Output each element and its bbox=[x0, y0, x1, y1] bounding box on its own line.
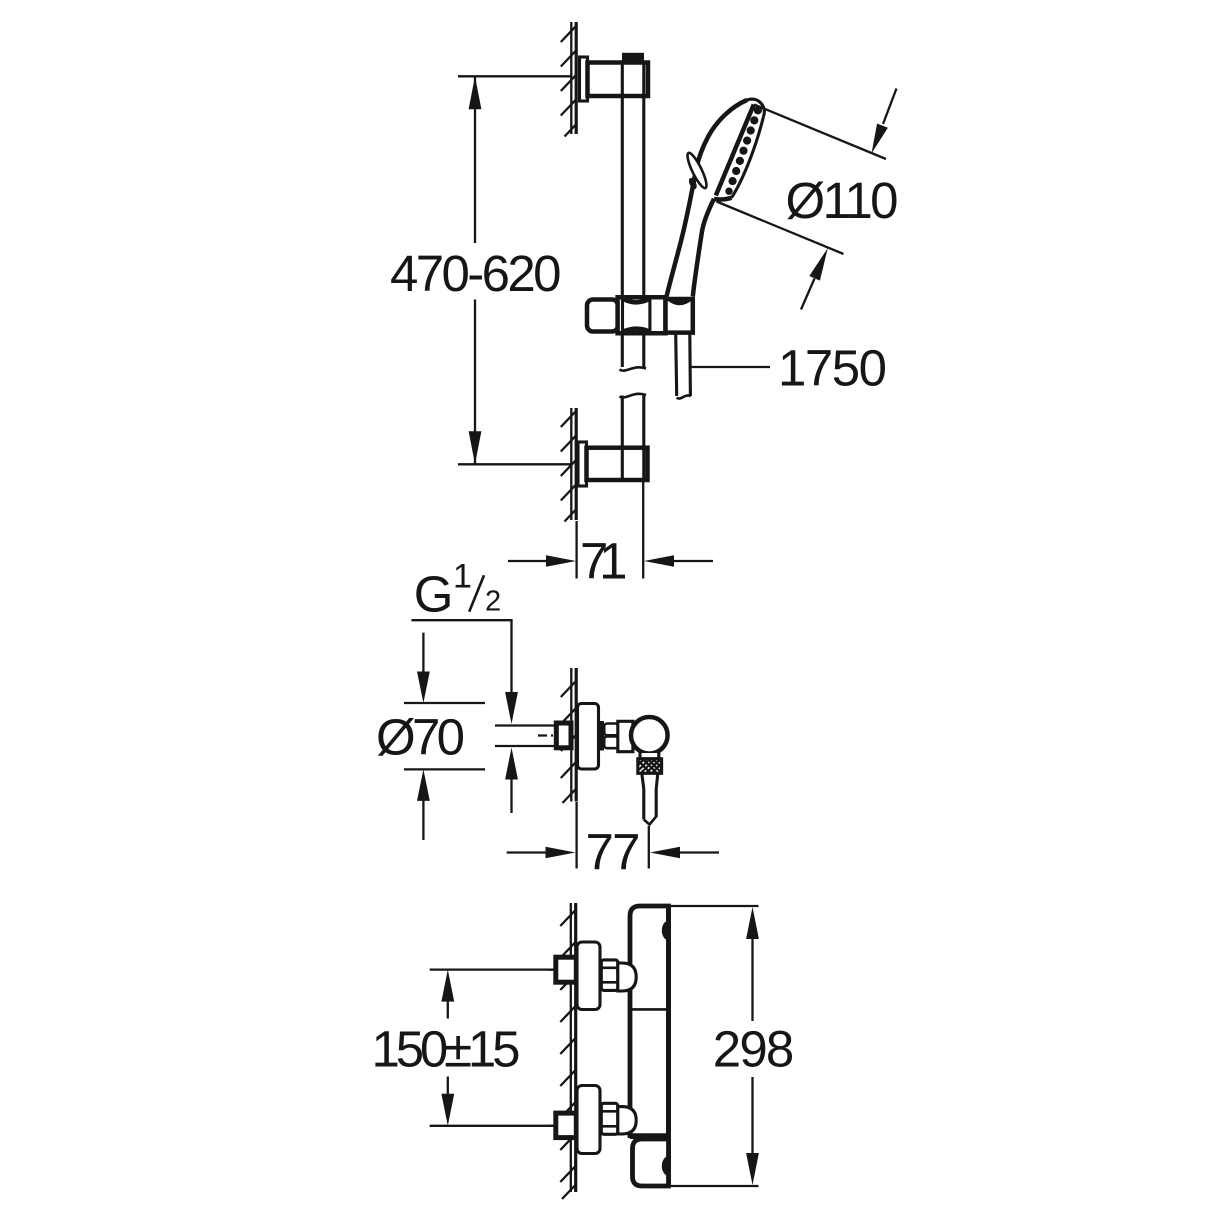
spray nozzles bbox=[725, 106, 762, 195]
bottom inlet: nut behind wall bbox=[556, 1113, 577, 1138]
wall (top) bbox=[571, 22, 576, 134]
bottom cap bbox=[633, 1139, 669, 1186]
svg-text:1750: 1750 bbox=[778, 340, 887, 397]
svg-text:1: 1 bbox=[453, 558, 472, 596]
spray face outer rim bbox=[732, 117, 764, 198]
holder right clamp bbox=[666, 299, 693, 333]
hand shower outline (left side and handle) bbox=[667, 100, 748, 297]
wall bracket (lower) body bbox=[587, 448, 648, 480]
wall hatching (top) bbox=[561, 25, 577, 136]
holder sleeve verticals bbox=[621, 298, 624, 334]
dimension Ø110 extension line 1 bbox=[754, 105, 886, 160]
dimension 298 line and arrows bbox=[746, 907, 759, 939]
top inlet: union hex nut bbox=[601, 960, 618, 991]
extension line top of 470-620 bbox=[458, 75, 571, 77]
G1/2 leader arrow (down) bbox=[505, 692, 518, 724]
svg-text:71: 71 bbox=[580, 533, 628, 590]
top inlet: dome bbox=[618, 963, 636, 991]
knurl pattern bbox=[638, 759, 661, 773]
wall bracket (lower) flange bbox=[578, 442, 587, 486]
thermostat body column bbox=[630, 906, 669, 1136]
column bottom divider (thick) bbox=[630, 1134, 669, 1139]
escutcheon (middle) bbox=[578, 704, 599, 770]
Ø70 extension lines bbox=[404, 702, 485, 704]
hose end cut bbox=[644, 817, 656, 825]
svg-text:470-620: 470-620 bbox=[390, 245, 562, 302]
Ø110 arrow 1 bbox=[883, 89, 897, 125]
svg-text:G: G bbox=[414, 565, 454, 622]
dimension 77 arrows bbox=[507, 851, 547, 853]
svg-text:Ø70: Ø70 bbox=[376, 708, 465, 765]
wall bracket (top) flange bbox=[580, 57, 588, 101]
svg-text:150±15: 150±15 bbox=[372, 1021, 521, 1078]
centerline bbox=[538, 734, 575, 736]
top inlet: nut behind wall bbox=[556, 957, 577, 982]
hand shower apex cap bbox=[747, 99, 764, 117]
rail break wavy lines bbox=[620, 367, 647, 370]
G1/2 leader line bbox=[411, 620, 511, 694]
head bottom edge bbox=[714, 198, 732, 200]
wall hatching (middle) bbox=[561, 680, 577, 803]
rail cap (black) bbox=[622, 53, 644, 61]
top inlet: extension line bbox=[430, 968, 553, 970]
shadow crescent at handle joint bbox=[666, 297, 694, 305]
column top divider bbox=[630, 1008, 669, 1011]
inlet nut extension lines bbox=[495, 724, 556, 726]
top inlet: escutcheon bbox=[577, 942, 600, 1010]
bottom inlet: extension line bbox=[430, 1125, 553, 1127]
hose taper bbox=[642, 773, 658, 789]
dimension 71 arrows bbox=[508, 560, 548, 562]
hose end cut bbox=[677, 395, 691, 398]
spray face inner line bbox=[716, 105, 754, 196]
handle right edge bbox=[693, 199, 714, 297]
svg-text:Ø110: Ø110 bbox=[786, 172, 899, 229]
bottom inlet: escutcheon bbox=[577, 1086, 600, 1154]
wall bracket (top) body bbox=[588, 63, 649, 97]
wall (middle) bbox=[571, 668, 576, 802]
outlet notch (top) bbox=[662, 921, 669, 941]
svg-text:2: 2 bbox=[485, 585, 501, 617]
control knob (circle) bbox=[631, 717, 668, 754]
arrow down 470-620 bbox=[469, 431, 482, 464]
dimension Ø70 lower arrow bbox=[417, 769, 430, 801]
dimension Ø70 upper arrow bbox=[422, 633, 424, 672]
escutcheon lip bbox=[600, 721, 605, 751]
wall hatching (bottom) bbox=[560, 909, 576, 1199]
dimension 470-620 vertical line bbox=[474, 76, 476, 243]
bottom inlet: union hex nut bbox=[601, 1103, 618, 1134]
wall (bottom) bbox=[571, 903, 576, 1192]
holder sleeve waist curves bbox=[623, 299, 650, 303]
svg-text:298: 298 bbox=[713, 1021, 795, 1078]
hose tail bbox=[644, 789, 656, 820]
holder sleeve bbox=[618, 297, 666, 333]
rail edges through lower bracket bbox=[621, 448, 624, 480]
hose below holder bbox=[676, 333, 691, 396]
wall hatching (lower, top figure) bbox=[561, 410, 577, 521]
dimension 150±15 bbox=[441, 970, 454, 1002]
arrow up 470-620 bbox=[469, 76, 482, 109]
svg-text:77: 77 bbox=[586, 823, 641, 880]
dimension 298 extension lines bbox=[671, 905, 759, 907]
mode button dark tip bbox=[687, 177, 698, 191]
outlet notch (bottom) bbox=[662, 1156, 669, 1176]
dimension 71 extension lines bbox=[575, 521, 577, 579]
leader 1750 bbox=[691, 366, 770, 368]
rail between holder and break bbox=[622, 333, 644, 367]
valve body section bbox=[618, 721, 633, 751]
column right edge full height bbox=[666, 906, 671, 1186]
knurled hose nut bbox=[638, 759, 662, 774]
dimension Ø110 extension line 2 bbox=[717, 202, 844, 255]
dimension 77 extension lines bbox=[575, 802, 577, 869]
rail lower segment bbox=[622, 396, 644, 448]
union nut facets bbox=[604, 724, 618, 736]
mode button bbox=[684, 151, 709, 190]
holder knob (left) bbox=[587, 300, 618, 332]
Ø110 arrow 2 bbox=[801, 279, 815, 310]
bottom inlet: dome bbox=[618, 1107, 636, 1134]
thread up arrow below bbox=[505, 748, 518, 780]
outlet neck bbox=[640, 753, 659, 759]
wall (lower, top figure) bbox=[571, 408, 576, 520]
inlet nut (behind wall) bbox=[556, 723, 571, 748]
rail edges through bracket bbox=[621, 63, 624, 97]
rail upper segment bbox=[622, 96, 644, 297]
extension line bottom of 470-620 bbox=[458, 463, 571, 465]
